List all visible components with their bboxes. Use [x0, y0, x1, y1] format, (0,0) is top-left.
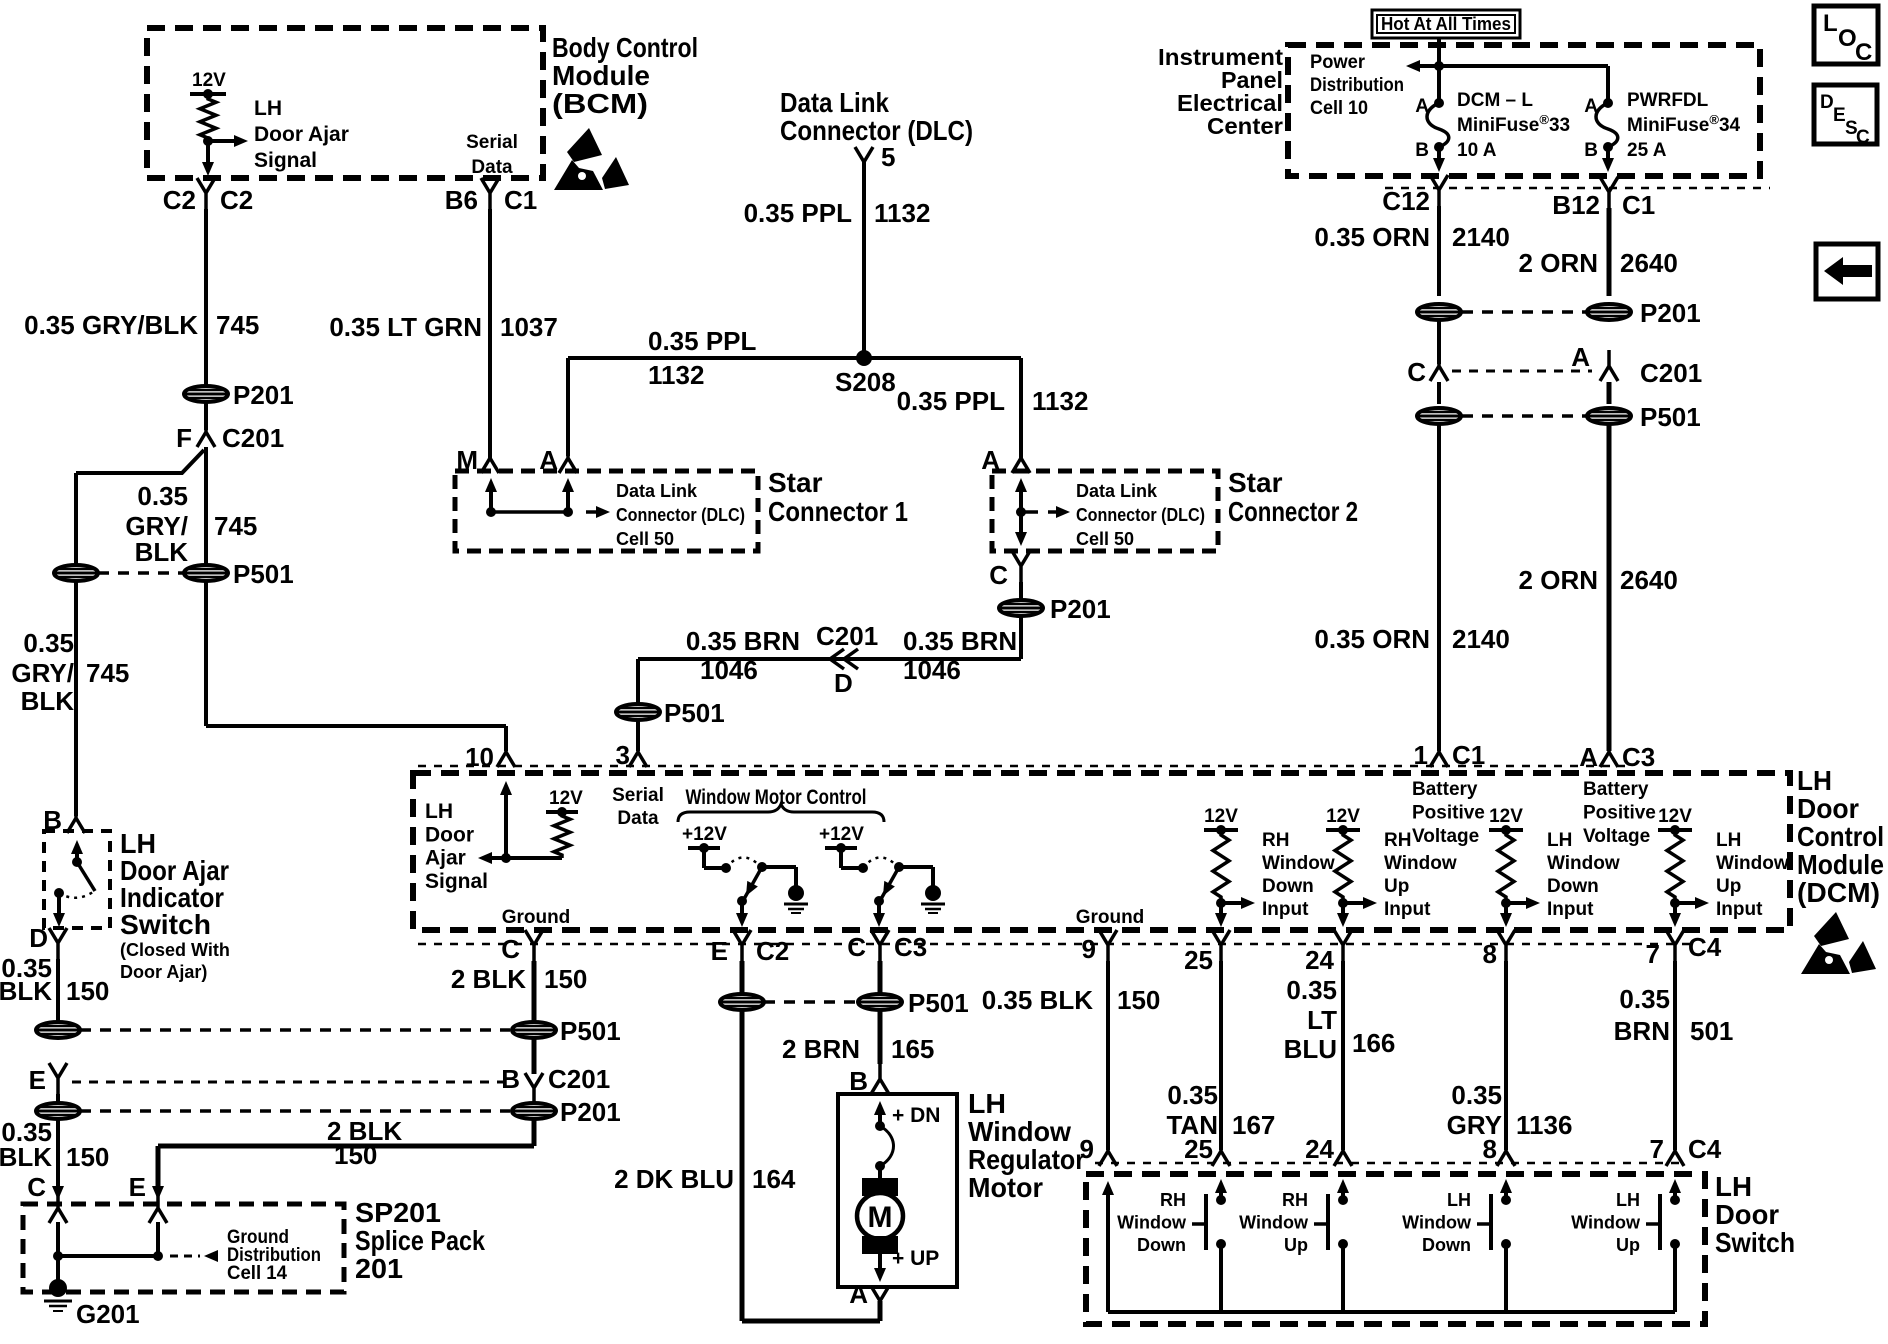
svg-text:C4: C4 [1688, 932, 1722, 962]
svg-text:0.35: 0.35 [1619, 984, 1670, 1014]
svg-text:M: M [868, 1201, 893, 1234]
svg-text:C: C [27, 1172, 46, 1202]
svg-text:7: 7 [1646, 939, 1660, 969]
svg-text:25: 25 [1184, 945, 1213, 975]
svg-text:E: E [1833, 105, 1846, 126]
svg-text:DCM – L: DCM – L [1457, 90, 1533, 111]
svg-text:Ajar: Ajar [425, 847, 466, 870]
svg-text:0.35 PPL: 0.35 PPL [897, 386, 1006, 416]
svg-text:1037: 1037 [500, 312, 558, 342]
svg-text:Ground: Ground [502, 907, 571, 928]
svg-text:1046: 1046 [903, 655, 961, 685]
svg-text:Input: Input [1384, 899, 1431, 920]
svg-text:501: 501 [1690, 1016, 1733, 1046]
svg-text:1046: 1046 [700, 655, 758, 685]
svg-text:Signal: Signal [425, 870, 488, 893]
svg-text:A: A [1584, 96, 1598, 117]
svg-text:S208: S208 [835, 367, 896, 397]
svg-text:Battery: Battery [1412, 779, 1478, 800]
svg-text:5: 5 [881, 142, 895, 172]
svg-text:Positive: Positive [1412, 803, 1485, 824]
svg-text:745: 745 [216, 310, 259, 340]
svg-text:C: C [989, 560, 1008, 590]
svg-text:C1: C1 [504, 185, 537, 215]
svg-text:9: 9 [1082, 934, 1096, 964]
svg-text:Signal: Signal [254, 149, 317, 172]
svg-text:P501: P501 [1640, 402, 1701, 432]
svg-text:2 DK BLU: 2 DK BLU [614, 1164, 734, 1194]
svg-text:BRN: BRN [1614, 1016, 1670, 1046]
svg-text:C1: C1 [1452, 740, 1485, 770]
svg-text:E: E [29, 1065, 46, 1095]
svg-text:164: 164 [752, 1164, 796, 1194]
svg-text:Connector (DLC): Connector (DLC) [616, 505, 745, 525]
svg-text:LH: LH [1547, 830, 1572, 851]
svg-text:1132: 1132 [874, 198, 930, 228]
svg-text:0.35 BLK: 0.35 BLK [982, 985, 1093, 1015]
svg-text:Down: Down [1137, 1235, 1186, 1255]
svg-text:Module: Module [552, 60, 650, 91]
svg-text:150: 150 [1117, 985, 1160, 1015]
svg-text:C: C [1855, 39, 1872, 66]
svg-text:150: 150 [66, 1142, 109, 1172]
svg-text:Window: Window [1262, 853, 1335, 874]
svg-text:Window: Window [968, 1116, 1071, 1147]
svg-text:Data Link: Data Link [616, 481, 698, 501]
svg-text:Data: Data [617, 808, 659, 829]
svg-text:1132: 1132 [648, 360, 704, 390]
svg-text:PWRFDL: PWRFDL [1627, 90, 1709, 111]
svg-text:C: C [501, 934, 520, 964]
svg-text:Connector 1: Connector 1 [768, 496, 908, 527]
svg-text:C2: C2 [756, 936, 789, 966]
svg-text:BLK: BLK [0, 1142, 52, 1172]
svg-text:C201: C201 [816, 621, 878, 651]
svg-text:Window: Window [1547, 853, 1620, 874]
svg-text:G201: G201 [76, 1299, 140, 1329]
svg-text:Battery: Battery [1583, 779, 1649, 800]
svg-text:C3: C3 [894, 932, 927, 962]
svg-text:Door Ajar): Door Ajar) [120, 962, 207, 982]
svg-text:10 A: 10 A [1457, 140, 1497, 161]
svg-text:Control: Control [1797, 821, 1884, 852]
svg-text:Switch: Switch [120, 909, 211, 940]
svg-text:0.35 PPL: 0.35 PPL [744, 198, 853, 228]
svg-text:Window: Window [1716, 853, 1789, 874]
svg-text:2 BLK: 2 BLK [451, 964, 526, 994]
svg-text:+ UP: + UP [892, 1247, 939, 1270]
svg-text:12V: 12V [549, 788, 583, 809]
svg-text:150: 150 [66, 976, 109, 1006]
svg-text:Input: Input [1262, 899, 1309, 920]
svg-text:Door: Door [1797, 793, 1859, 824]
svg-text:Window: Window [1117, 1213, 1187, 1233]
svg-text:F: F [176, 423, 192, 453]
svg-text:24: 24 [1305, 945, 1334, 975]
svg-text:B: B [1584, 140, 1598, 161]
svg-text:RH: RH [1262, 830, 1289, 851]
svg-text:Up: Up [1716, 876, 1741, 897]
svg-text:Window: Window [1384, 853, 1457, 874]
svg-text:LH: LH [1715, 1171, 1752, 1202]
svg-text:0.35 LT GRN: 0.35 LT GRN [329, 312, 482, 342]
svg-text:Voltage: Voltage [1583, 826, 1650, 847]
svg-text:Module: Module [1797, 849, 1884, 880]
svg-text:GRY: GRY [1447, 1110, 1502, 1140]
svg-text:Down: Down [1262, 876, 1314, 897]
svg-text:Distribution: Distribution [1310, 75, 1404, 96]
svg-text:A: A [1571, 342, 1590, 372]
svg-text:Connector (DLC): Connector (DLC) [780, 115, 973, 146]
svg-text:0.35 GRY/BLK: 0.35 GRY/BLK [24, 310, 198, 340]
svg-text:0.35: 0.35 [1286, 975, 1337, 1005]
svg-text:Window Motor Control: Window Motor Control [686, 786, 867, 809]
svg-text:Window: Window [1402, 1213, 1472, 1233]
svg-text:B: B [849, 1066, 868, 1096]
svg-text:Connector (DLC): Connector (DLC) [1076, 505, 1205, 525]
svg-text:2 ORN: 2 ORN [1519, 565, 1598, 595]
svg-text:Body Control: Body Control [552, 32, 698, 63]
svg-text:Data: Data [471, 157, 513, 178]
svg-text:Door Ajar: Door Ajar [254, 123, 349, 146]
svg-text:Down: Down [1422, 1235, 1471, 1255]
svg-text:25 A: 25 A [1627, 140, 1667, 161]
svg-text:Regulator: Regulator [968, 1144, 1085, 1175]
svg-text:10: 10 [465, 742, 494, 772]
svg-text:RH: RH [1384, 830, 1411, 851]
svg-text:P201: P201 [233, 380, 294, 410]
svg-text:0.35 PPL: 0.35 PPL [648, 326, 757, 356]
svg-text:D: D [29, 923, 48, 953]
svg-text:165: 165 [891, 1034, 934, 1064]
svg-text:P201: P201 [560, 1097, 621, 1127]
svg-text:P501: P501 [233, 559, 294, 589]
svg-text:24: 24 [1305, 1134, 1334, 1164]
svg-text:Input: Input [1716, 899, 1763, 920]
svg-text:Door: Door [1715, 1199, 1779, 1230]
svg-text:C1: C1 [1622, 190, 1655, 220]
svg-text:+ DN: + DN [892, 1104, 940, 1127]
svg-text:Up: Up [1384, 876, 1409, 897]
svg-text:O: O [1838, 25, 1857, 52]
svg-text:B: B [501, 1064, 520, 1094]
svg-text:Star: Star [1228, 467, 1283, 498]
svg-text:Serial: Serial [612, 785, 664, 806]
svg-text:LH: LH [254, 97, 282, 120]
svg-text:P501: P501 [560, 1016, 621, 1046]
svg-text:C2: C2 [163, 185, 196, 215]
svg-text:0.35 BRN: 0.35 BRN [903, 626, 1017, 656]
svg-text:Cell 10: Cell 10 [1310, 98, 1368, 119]
svg-text:Star: Star [768, 467, 823, 498]
svg-text:C2: C2 [220, 185, 253, 215]
svg-text:9: 9 [1080, 1134, 1094, 1164]
svg-text:Input: Input [1547, 899, 1594, 920]
svg-text:Window: Window [1571, 1213, 1641, 1233]
svg-text:LH: LH [425, 800, 453, 823]
svg-text:C201: C201 [222, 423, 284, 453]
svg-text:RH: RH [1160, 1190, 1186, 1210]
svg-text:Window: Window [1239, 1213, 1309, 1233]
svg-text:RH: RH [1282, 1190, 1308, 1210]
svg-text:Up: Up [1284, 1235, 1308, 1255]
svg-text:Ground: Ground [1076, 907, 1145, 928]
svg-text:SP201: SP201 [355, 1197, 441, 1228]
svg-text:0.35 ORN: 0.35 ORN [1314, 222, 1430, 252]
svg-text:7: 7 [1650, 1134, 1664, 1164]
svg-text:2 BRN: 2 BRN [782, 1034, 860, 1064]
svg-text:BLU: BLU [1284, 1034, 1337, 1064]
svg-text:MiniFuse®34: MiniFuse®34 [1627, 112, 1741, 136]
svg-text:C: C [1856, 127, 1870, 148]
svg-text:Up: Up [1616, 1235, 1640, 1255]
svg-text:Motor: Motor [968, 1172, 1043, 1203]
svg-text:0.35 BRN: 0.35 BRN [686, 626, 800, 656]
svg-text:Down: Down [1547, 876, 1599, 897]
svg-text:150: 150 [334, 1140, 377, 1170]
svg-text:+12V: +12V [682, 824, 727, 845]
svg-text:+12V: +12V [819, 824, 864, 845]
svg-text:P201: P201 [1640, 298, 1701, 328]
svg-text:E: E [711, 936, 728, 966]
svg-text:TAN: TAN [1166, 1110, 1218, 1140]
svg-text:E: E [129, 1172, 146, 1202]
svg-text:2640: 2640 [1620, 565, 1678, 595]
svg-text:167: 167 [1232, 1110, 1275, 1140]
svg-text:1136: 1136 [1516, 1110, 1572, 1140]
svg-text:LT: LT [1307, 1005, 1337, 1035]
svg-text:2 ORN: 2 ORN [1519, 248, 1598, 278]
svg-text:1132: 1132 [1032, 386, 1088, 416]
svg-text:12V: 12V [1489, 806, 1523, 827]
svg-text:C: C [1407, 357, 1426, 387]
svg-text:A: A [849, 1279, 868, 1309]
svg-text:BLK: BLK [0, 976, 52, 1006]
svg-text:Cell 50: Cell 50 [1076, 529, 1134, 549]
svg-text:745: 745 [214, 511, 257, 541]
svg-text:2140: 2140 [1452, 624, 1510, 654]
svg-text:BLK: BLK [135, 537, 189, 567]
svg-text:166: 166 [1352, 1028, 1395, 1058]
svg-text:150: 150 [544, 964, 587, 994]
svg-text:Serial: Serial [466, 132, 518, 153]
svg-text:8: 8 [1483, 939, 1497, 969]
svg-text:BLK: BLK [21, 686, 75, 716]
svg-text:0.35: 0.35 [1167, 1080, 1218, 1110]
svg-text:12V: 12V [192, 70, 226, 91]
svg-text:C4: C4 [1688, 1134, 1722, 1164]
svg-text:LH: LH [1447, 1190, 1471, 1210]
svg-text:Positive: Positive [1583, 803, 1656, 824]
svg-text:C: C [847, 932, 866, 962]
svg-text:C12: C12 [1382, 186, 1430, 216]
svg-text:0.35: 0.35 [137, 481, 188, 511]
svg-text:Center: Center [1207, 113, 1283, 139]
svg-text:(Closed With: (Closed With [120, 940, 230, 960]
svg-text:LH: LH [1716, 830, 1741, 851]
svg-text:B12: B12 [1552, 190, 1600, 220]
svg-text:MiniFuse®33: MiniFuse®33 [1457, 112, 1570, 136]
svg-text:12V: 12V [1326, 806, 1360, 827]
svg-text:LH: LH [1616, 1190, 1640, 1210]
svg-text:A: A [1579, 742, 1598, 772]
svg-text:Switch: Switch [1715, 1227, 1795, 1258]
svg-text:12V: 12V [1204, 806, 1238, 827]
svg-text:C201: C201 [1640, 358, 1702, 388]
svg-text:C201: C201 [548, 1064, 610, 1094]
svg-text:201: 201 [355, 1253, 403, 1284]
svg-text:Cell 50: Cell 50 [616, 529, 674, 549]
svg-text:(BCM): (BCM) [552, 88, 648, 119]
svg-text:2140: 2140 [1452, 222, 1510, 252]
svg-text:L: L [1823, 10, 1838, 37]
svg-text:2640: 2640 [1620, 248, 1678, 278]
svg-text:Hot At All Times: Hot At All Times [1381, 14, 1511, 34]
svg-text:A: A [1415, 96, 1429, 117]
svg-text:P501: P501 [664, 698, 725, 728]
svg-text:Data Link: Data Link [1076, 481, 1158, 501]
svg-text:C3: C3 [1622, 742, 1655, 772]
svg-text:B6: B6 [445, 185, 478, 215]
svg-text:(DCM): (DCM) [1797, 877, 1880, 908]
svg-text:P201: P201 [1050, 594, 1111, 624]
svg-text:Connector 2: Connector 2 [1228, 496, 1358, 527]
svg-text:Data Link: Data Link [780, 87, 889, 118]
svg-text:0.35 ORN: 0.35 ORN [1314, 624, 1430, 654]
svg-text:GRY/: GRY/ [11, 658, 74, 688]
svg-text:D: D [834, 668, 853, 698]
svg-text:LH: LH [1797, 765, 1832, 796]
svg-text:Voltage: Voltage [1412, 826, 1479, 847]
svg-text:B: B [1415, 140, 1429, 161]
svg-text:Splice Pack: Splice Pack [355, 1225, 485, 1256]
svg-text:P501: P501 [908, 988, 969, 1018]
svg-text:Cell 14: Cell 14 [227, 1263, 287, 1284]
svg-text:12V: 12V [1658, 806, 1692, 827]
svg-text:LH: LH [968, 1088, 1006, 1119]
svg-text:D: D [1820, 92, 1834, 113]
svg-text:0.35: 0.35 [1451, 1080, 1502, 1110]
svg-text:Power: Power [1310, 52, 1366, 73]
svg-text:Door: Door [425, 823, 474, 846]
svg-text:745: 745 [86, 658, 129, 688]
svg-text:0.35: 0.35 [23, 628, 74, 658]
svg-text:1: 1 [1414, 740, 1428, 770]
